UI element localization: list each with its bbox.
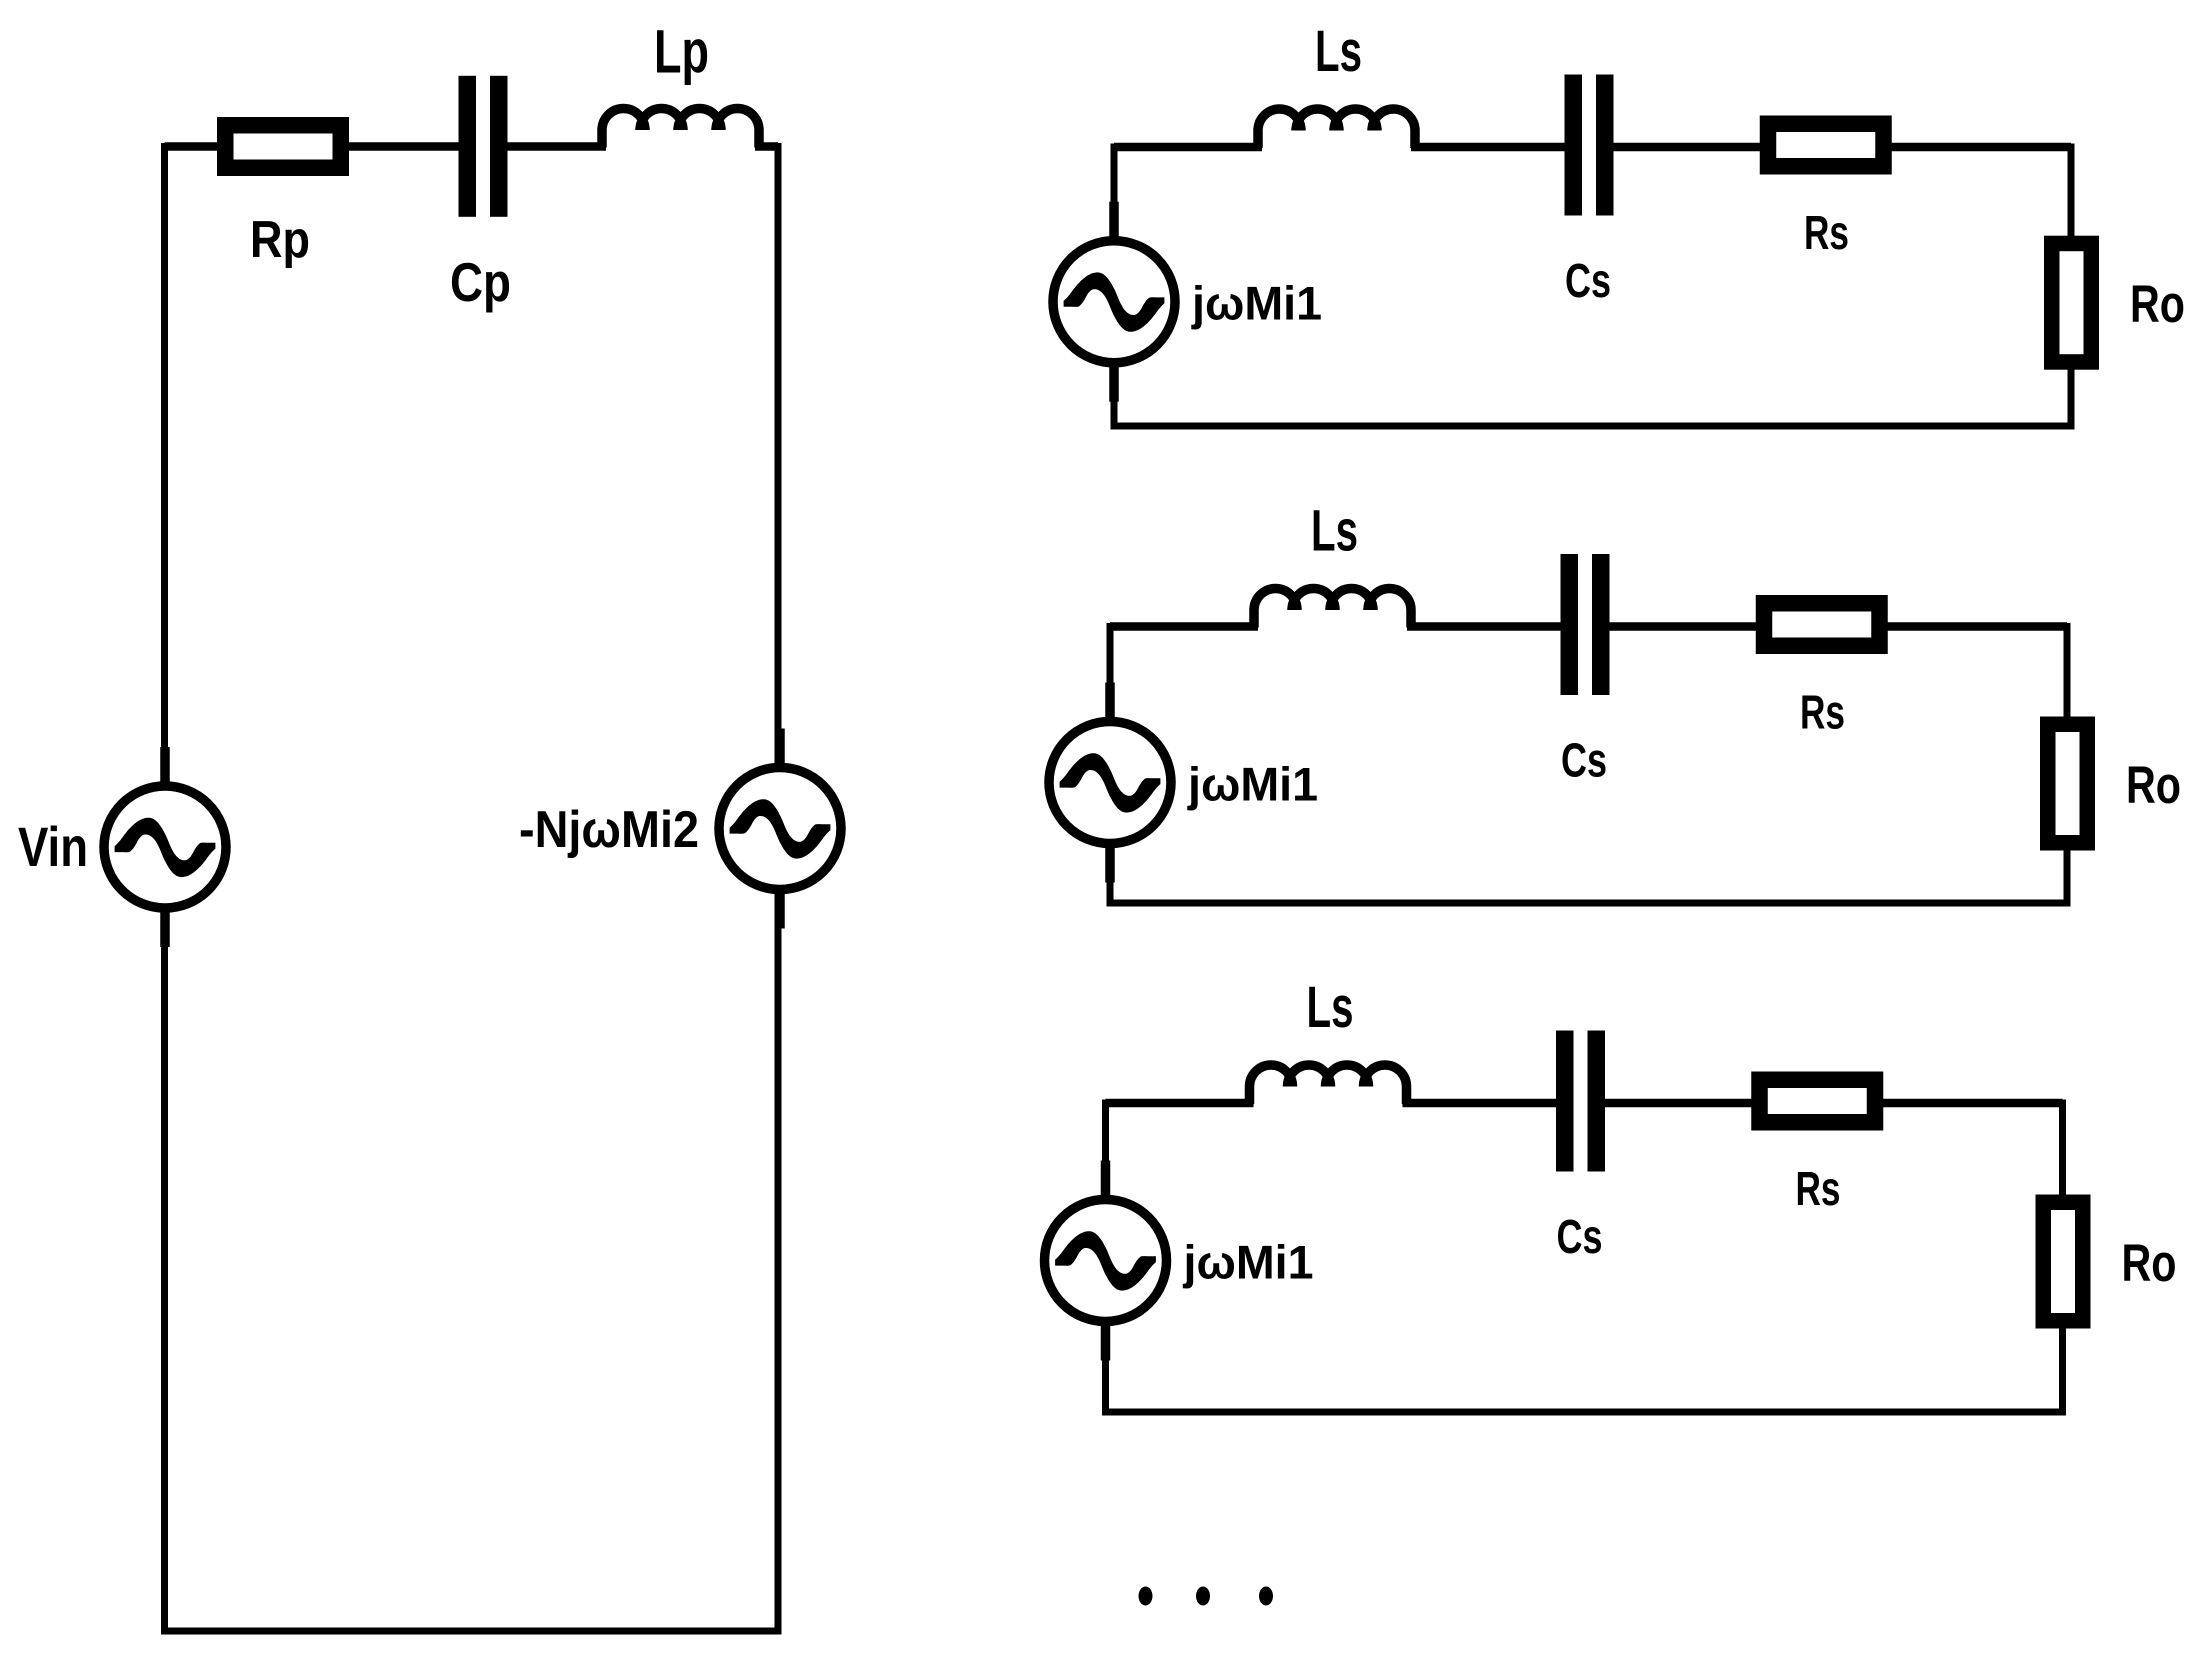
svg-text:Rs: Rs (1804, 207, 1849, 260)
svg-text:jωMi1: jωMi1 (1187, 758, 1318, 811)
svg-text:Cs: Cs (1561, 735, 1607, 788)
svg-text:Cp: Cp (450, 251, 511, 313)
svg-text:Ro: Ro (2122, 1234, 2177, 1293)
svg-text:Ro: Ro (2130, 275, 2185, 334)
svg-text:-NjωMi2: -NjωMi2 (519, 801, 699, 859)
svg-text:jωMi1: jωMi1 (1191, 277, 1322, 330)
svg-text:Cs: Cs (1557, 1211, 1603, 1264)
svg-text:jωMi1: jωMi1 (1183, 1236, 1314, 1289)
svg-text:Ls: Ls (1315, 19, 1362, 84)
svg-text:Ls: Ls (1307, 975, 1354, 1040)
svg-text:Rp: Rp (250, 211, 310, 269)
svg-text:Ro: Ro (2126, 756, 2181, 815)
svg-text:Cs: Cs (1565, 255, 1611, 308)
svg-text:Lp: Lp (654, 17, 709, 85)
svg-text:Rs: Rs (1800, 687, 1845, 740)
svg-text:Ls: Ls (1311, 499, 1358, 564)
svg-text:Vin: Vin (18, 815, 88, 878)
svg-text:Rs: Rs (1796, 1163, 1841, 1216)
